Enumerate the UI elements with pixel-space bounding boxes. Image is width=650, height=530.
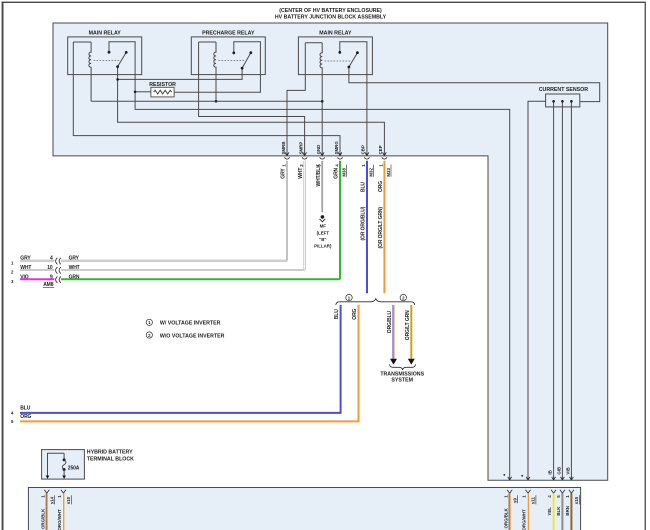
svg-text:SYSTEM: SYSTEM (391, 378, 413, 384)
wire ORG option1 (20, 305, 359, 422)
svg-text:BLU: BLU (334, 309, 340, 319)
svg-text:CURRENT SENSOR: CURRENT SENSOR (539, 87, 589, 93)
wire BLK (561, 493, 563, 530)
svg-text:VIB: VIB (565, 467, 570, 474)
junction dot resistor input (134, 91, 137, 94)
svg-text:"B": "B" (319, 237, 326, 242)
relay K1 MAIN RELAY box (68, 37, 142, 75)
junction dot K1 pivot branch (116, 78, 119, 81)
under brace (390, 364, 416, 370)
wire ORG/BLK left (46, 493, 48, 530)
svg-text:GRY: GRY (281, 168, 287, 179)
svg-text:BLU: BLU (20, 406, 30, 412)
arrows at bottom edge of junction box (508, 477, 574, 480)
switch arm K1 (118, 52, 127, 66)
ground wire dot (321, 215, 325, 219)
coil K2 (214, 42, 216, 101)
wire K3 fixed contact to CBP (340, 42, 367, 156)
wire sensor pin2 down (561, 101, 563, 480)
page border top (2, 2, 646, 3)
resistor R1 zigzag (154, 90, 172, 94)
wire ORG/LT GRN option2 (410, 305, 412, 359)
wire resistor output to K2 fixed contact (174, 42, 260, 93)
wire K3 inner top (305, 42, 322, 44)
svg-text:WHT: WHT (298, 168, 304, 179)
wire K3 pivot to current sensor (349, 67, 600, 102)
svg-text:IB: IB (548, 470, 553, 474)
terminal block internal wiring (48, 453, 65, 475)
svg-text:(LEFT: (LEFT (317, 231, 330, 236)
junction dot K2 coil gnd (215, 100, 218, 103)
svg-text:s15: s15 (574, 496, 579, 504)
dashed link K1 (94, 60, 121, 62)
svg-text:(OR ORG/BLU): (OR ORG/BLU) (360, 206, 366, 240)
wire ORG/BLU option2 (393, 305, 395, 359)
svg-text:ORG/BLK: ORG/BLK (503, 507, 508, 528)
ground chevron (320, 219, 326, 222)
coil K3 and GND wire (320, 43, 322, 156)
dashed link K2 (219, 60, 246, 62)
circled 2 at brace (400, 294, 406, 300)
junction dot K3 coil gnd (321, 100, 324, 103)
wire GRN vertical (339, 161, 341, 279)
fuse 250A (63, 458, 66, 461)
wire pivot branch to K2 pivot (118, 68, 243, 79)
wire GRY vertical (286, 161, 288, 261)
lower box female connectors (44, 490, 574, 494)
contact dots K3 (338, 51, 341, 54)
terminal block arrows (46, 476, 50, 479)
wire K1 coil terminal1 to SMRG node (73, 42, 340, 156)
wire coil-ground bus y=101.3 (91, 100, 322, 102)
arrow to transmission right (408, 359, 415, 365)
svg-text:(OR ORG/LT GRN): (OR ORG/LT GRN) (378, 207, 384, 249)
svg-text:GIB: GIB (556, 467, 561, 475)
svg-text:GRN: GRN (334, 167, 340, 178)
current sensor box (546, 94, 580, 107)
svg-text:ORG/BLU: ORG/BLU (387, 310, 393, 333)
svg-text:ORG/BLK: ORG/BLK (40, 508, 45, 529)
svg-text:(CENTER OF HV BATTERY ENCLOSUR: (CENTER OF HV BATTERY ENCLOSURE) (279, 8, 382, 14)
wire BRN (570, 493, 572, 530)
svg-text:ORG/LT GRN: ORG/LT GRN (405, 310, 411, 340)
wire K1 inner top (73, 41, 91, 43)
svg-text:BRN: BRN (565, 506, 570, 516)
svg-text:M32: M32 (369, 168, 374, 177)
svg-text:ORG/WHT: ORG/WHT (57, 509, 62, 530)
contact dots K1 (108, 51, 111, 54)
svg-text:YEL: YEL (547, 507, 552, 516)
wire sensor pin3 down (570, 101, 572, 480)
footnote dots (503, 474, 505, 476)
page border left (2, 2, 4, 530)
svg-text:HV BATTERY JUNCTION BLOCK ASSE: HV BATTERY JUNCTION BLOCK ASSEMBLY (275, 14, 387, 20)
lower junction box (28, 488, 580, 530)
wire ORG/WHT left (62, 493, 64, 530)
resistor R1 box (151, 87, 174, 97)
wire sensor pin1 down (553, 101, 555, 480)
svg-text:ORG: ORG (352, 308, 358, 319)
arrow to transmission left (390, 359, 397, 365)
wire ORG vertical CEP (383, 161, 385, 293)
wire K2 coil terminal1 to SMRP (199, 42, 305, 156)
wire K3 coil terminal1 to SMRB (287, 43, 305, 156)
svg-text:s11: s11 (531, 497, 536, 505)
svg-text:MAIN RELAY: MAIN RELAY (89, 31, 122, 37)
wire BLU vertical CBP (366, 161, 368, 293)
connector arrows at junction box edge (285, 152, 386, 155)
splice row2 (56, 267, 61, 274)
circled 1 at brace (346, 294, 352, 300)
contact dots K2 (232, 52, 235, 55)
HV battery junction block assembly box (flag shape) (53, 23, 608, 480)
wire ORG/BLK right (509, 493, 511, 530)
svg-text:s9: s9 (512, 498, 517, 503)
wire K1 pivot to CEP (118, 67, 385, 156)
wire WHT vertical (304, 161, 306, 270)
hybrid battery terminal block box (42, 450, 85, 480)
svg-text:PRECHARGE RELAY: PRECHARGE RELAY (202, 31, 255, 37)
svg-text:MF: MF (320, 224, 327, 229)
sensor junction dots (552, 100, 555, 103)
svg-text:250A: 250A (68, 465, 80, 471)
wire K1 fixed contact to resistor node and bottom connector wire (109, 42, 510, 481)
svg-text:SMRG: SMRG (334, 141, 339, 155)
svg-text:M38: M38 (342, 168, 347, 177)
female connector arcs below edge (284, 157, 387, 159)
svg-text:ORG: ORG (20, 414, 31, 420)
svg-text:HYBRID BATTERY: HYBRID BATTERY (87, 450, 133, 456)
svg-text:TRANSMISSIONS: TRANSMISSIONS (380, 371, 424, 377)
wire resistor stub (135, 91, 151, 93)
splice row3 (56, 276, 61, 283)
svg-text:W/O VOLTAGE INVERTER: W/O VOLTAGE INVERTER (160, 333, 225, 339)
svg-text:MAIN RELAY: MAIN RELAY (319, 31, 352, 37)
switch arm K3 (349, 53, 358, 67)
svg-text:W/ VOLTAGE INVERTER: W/ VOLTAGE INVERTER (160, 321, 221, 327)
coil K1 (89, 42, 91, 101)
relay K2 PRECHARGE RELAY box (191, 37, 265, 75)
wire ORG/WHT right (527, 493, 529, 530)
legend circle 2 (146, 332, 152, 338)
splice row1 (56, 258, 61, 265)
wire sensor left stub and down (528, 101, 546, 480)
option brace (336, 299, 415, 305)
svg-text:PILLAR): PILLAR) (314, 243, 332, 248)
svg-text:s10: s10 (66, 496, 71, 504)
wire K2 inner top (199, 41, 216, 43)
svg-text:WHT/BLK: WHT/BLK (316, 164, 322, 187)
legend circle 1 (146, 319, 152, 325)
svg-text:TERMINAL BLOCK: TERMINAL BLOCK (87, 457, 134, 463)
svg-text:M33: M33 (386, 168, 391, 177)
page border right (645, 2, 646, 530)
wire BLU option1 (20, 305, 341, 413)
wire YEL (553, 493, 555, 530)
svg-text:RESISTOR: RESISTOR (149, 82, 176, 88)
wire WHT/BLK vertical (321, 161, 323, 212)
svg-text:ORG/WHT: ORG/WHT (522, 509, 527, 530)
svg-text:BLK: BLK (556, 506, 561, 516)
svg-text:ORG: ORG (378, 181, 384, 192)
svg-text:BLU: BLU (360, 182, 366, 192)
dashed link K3 (325, 60, 352, 62)
relay K3 MAIN RELAY box (298, 37, 372, 75)
switch arm K2 (242, 53, 251, 68)
svg-text:s14: s14 (50, 496, 55, 504)
